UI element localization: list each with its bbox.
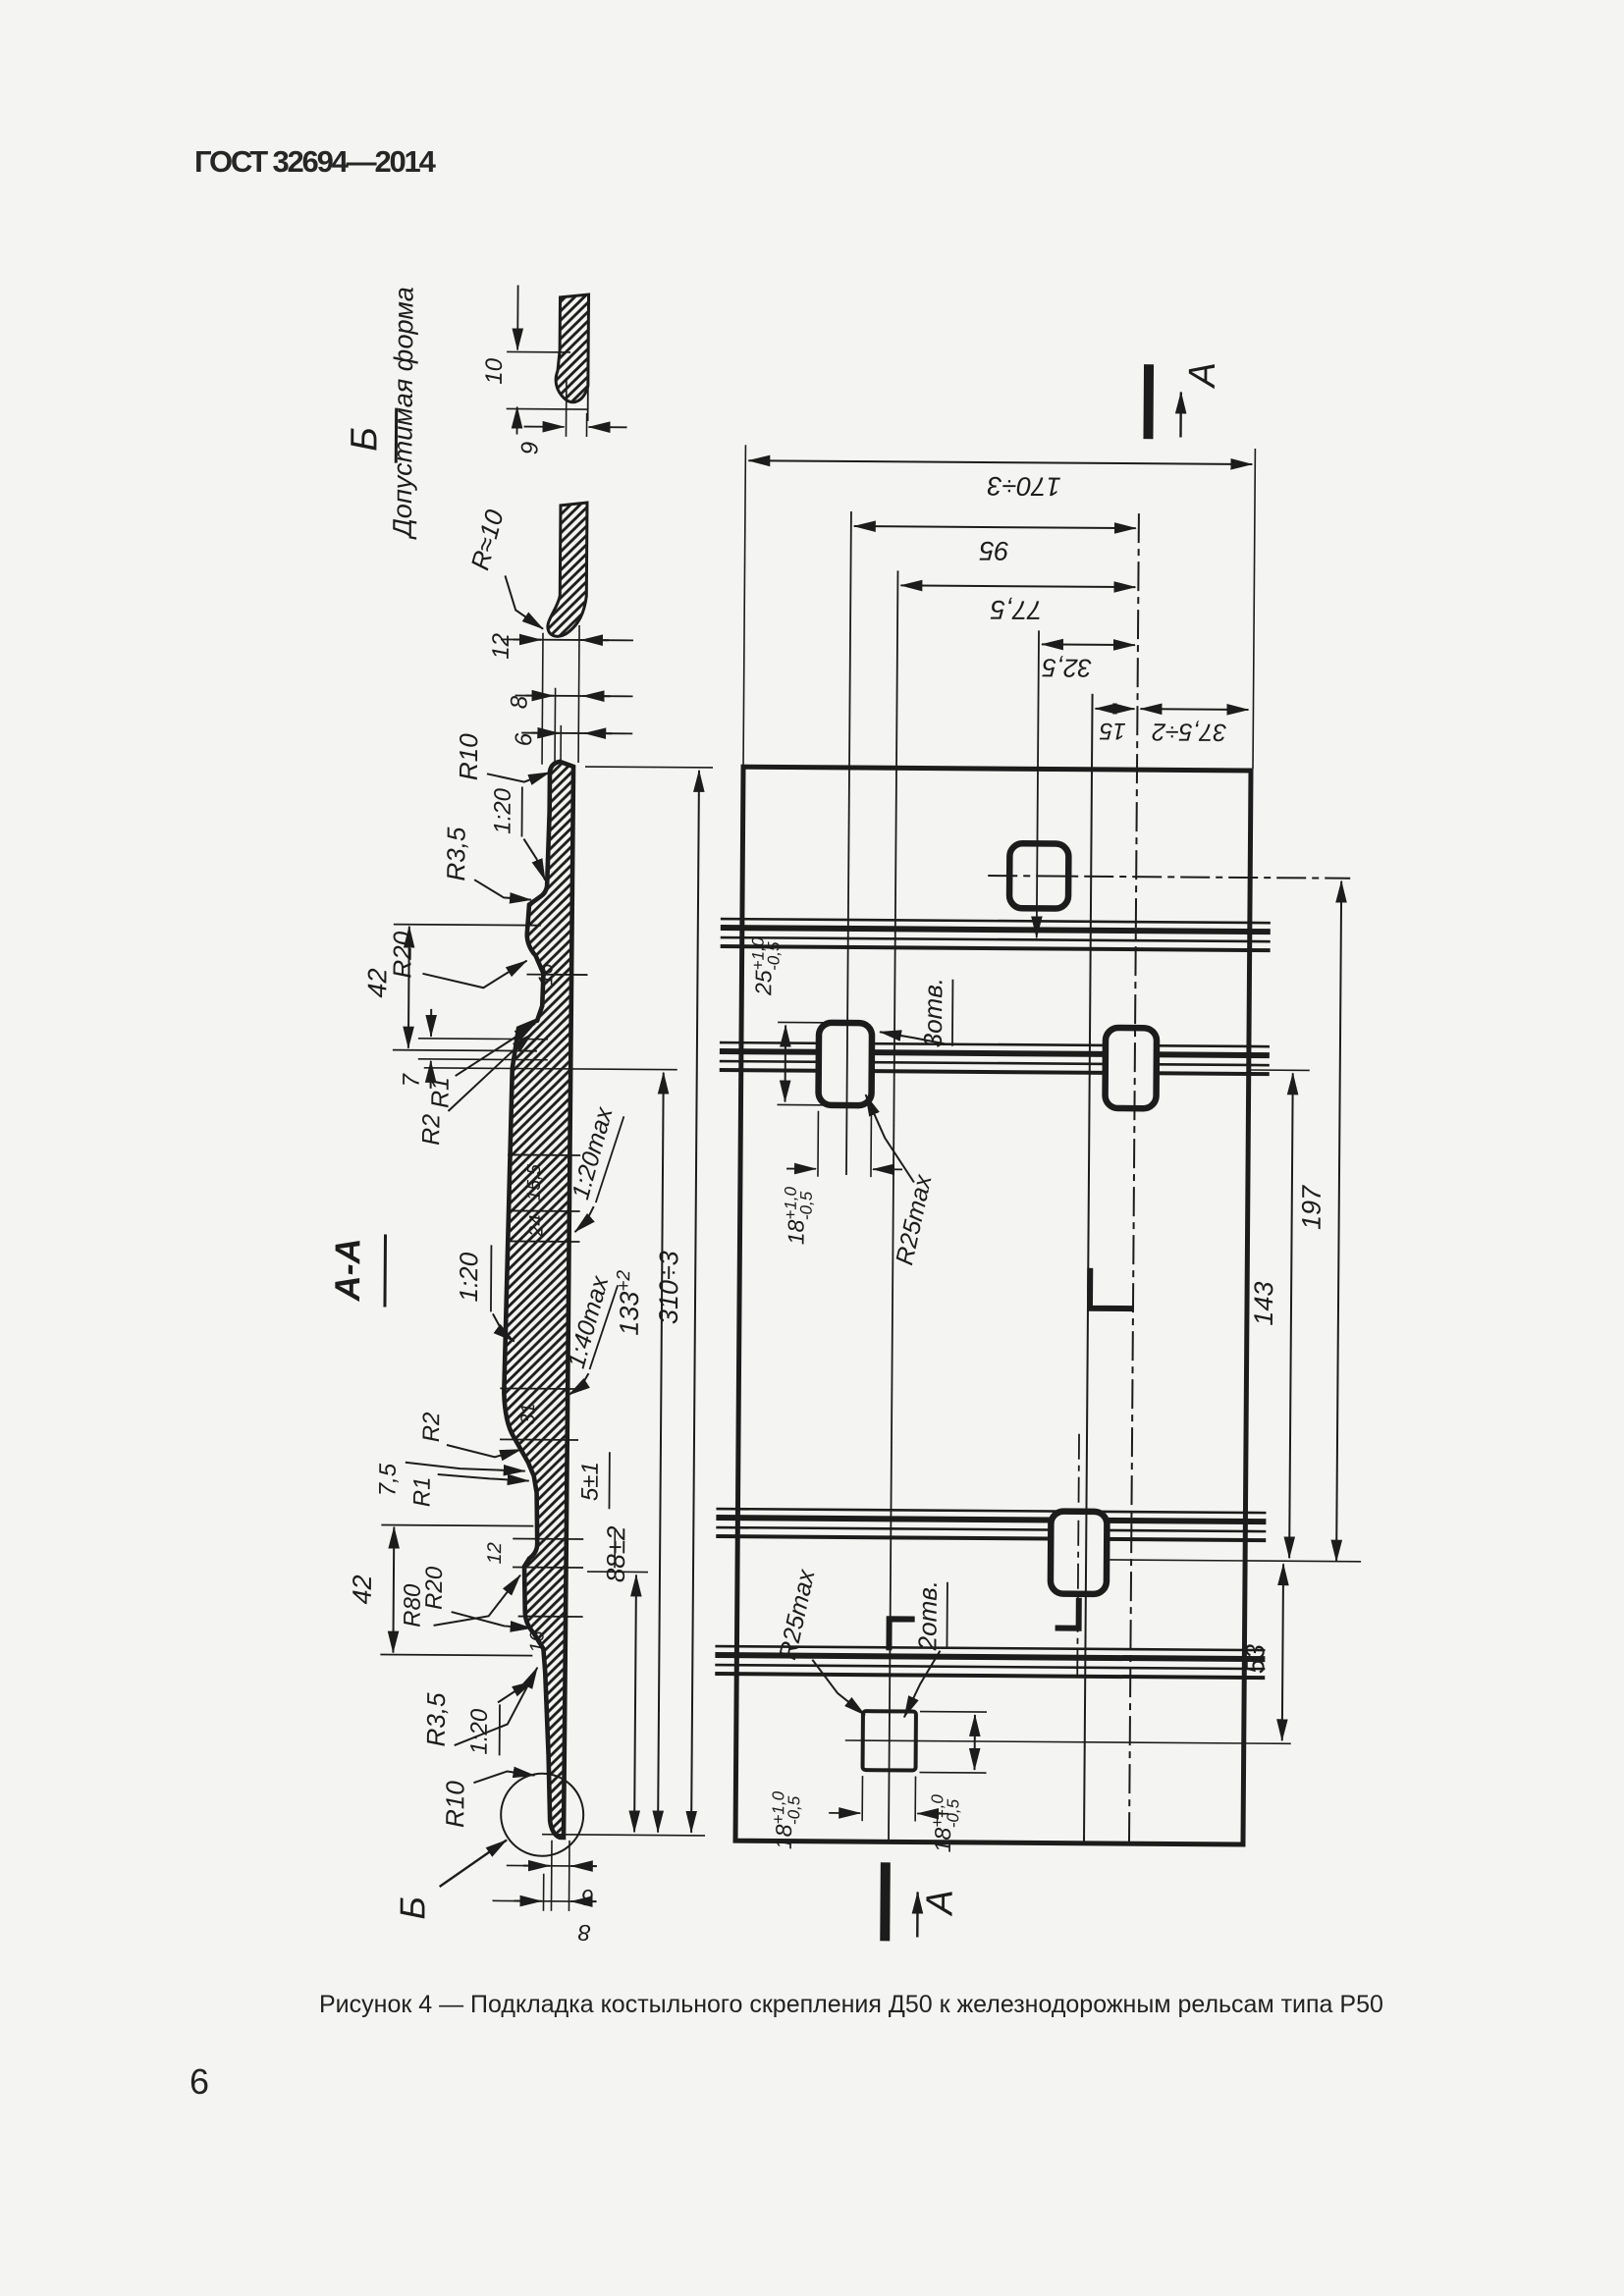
detail Б: main end-shape (hatched) [556,294,589,402]
svg-text:53: 53 [1240,1644,1270,1674]
dim 8 [554,688,557,765]
section A-A: pad profile (hatched) [501,761,573,1837]
dim 12 (end thickness) [541,633,544,765]
svg-text:8: 8 [506,695,532,709]
dim 6 bottom [550,1841,553,1911]
svg-text:15,5: 15,5 [524,1164,545,1201]
detail Б: alternative form R≈10 (hatched) [548,503,587,637]
svg-text:7,5: 7,5 [375,1463,402,1496]
detail Б: dim 9 [565,378,567,437]
svg-text:16: 16 [535,963,557,986]
svg-text:16: 16 [526,1630,548,1653]
svg-text:37,5÷2: 37,5÷2 [1152,718,1227,746]
svg-text:7: 7 [399,1072,425,1087]
svg-text:А: А [1182,362,1223,390]
svg-text:1:20max: 1:20max [567,1103,619,1202]
vertical centerline x=1154 (holes C axis, dash-dot) [1129,513,1139,1843]
hole D (lower row) [1051,1512,1108,1594]
svg-text:1:20: 1:20 [466,1708,493,1755]
svg-text:25+1,0-0,5: 25+1,0-0,5 [748,936,783,996]
svg-text:Б: Б [344,427,385,452]
svg-text:5±1: 5±1 [577,1462,604,1501]
svg-text:Допустимая форма: Допустимая форма [388,287,419,540]
dim 42 lower [381,1525,533,1526]
dim 18 (hole E height) [920,1711,987,1713]
dim 88±2 [587,1571,648,1573]
ext line 143 top [1251,1069,1310,1071]
thickness tick 12 lower [513,1538,583,1541]
svg-text:R≈10: R≈10 [464,507,510,573]
dim 18 (hole E width) [861,1776,863,1821]
svg-text:12: 12 [484,1542,506,1564]
thickness tick 16 lower [518,1616,583,1618]
svg-text:9: 9 [516,442,543,455]
svg-text:3отв.: 3отв. [918,978,948,1048]
dim 53 [1282,1564,1283,1740]
svg-text:8: 8 [578,1920,591,1946]
svg-text:31: 31 [517,1403,539,1424]
centerline hole E row (horizontal ext) [845,1740,1291,1743]
svg-text:18+1,0-0,5: 18+1,0-0,5 [781,1186,815,1245]
corner mark 1 (Г) [1090,1268,1133,1308]
plan view: pad outline [735,767,1251,1844]
svg-text:R3,5: R3,5 [441,827,470,881]
thickness tick 31 [500,1387,578,1390]
svg-text:R2: R2 [418,1412,445,1442]
svg-text:А-А: А-А [327,1238,367,1302]
svg-text:6: 6 [511,732,537,746]
thickness tick 16 upper [526,974,587,976]
dim 18+1.0-0.5 (hole B width) [817,1111,819,1177]
section mark A (top) [1143,364,1154,439]
svg-text:24: 24 [525,1214,547,1237]
rib band 3 [716,1509,1266,1513]
svg-text:R20: R20 [387,931,416,978]
svg-text:Б: Б [392,1896,432,1920]
vertical line x=909 (hole E axis) [889,570,898,1842]
rib band 2 [720,1042,1270,1046]
detail Б: dim 10 [507,350,570,352]
dim 77,5 [900,585,1135,587]
centerline hole D row (horizontal ext) [1110,1560,1361,1562]
vertical centerline hole D [1077,1434,1079,1676]
vertical line x=1108 (rail datum) [1084,694,1093,1843]
vertical line x=1053 (hole A axis) [1037,630,1039,917]
thickness ticks 15,5 / 24 [508,1153,580,1156]
svg-text:88±2: 88±2 [601,1525,630,1582]
svg-text:1:20: 1:20 [454,1252,483,1302]
svg-text:10: 10 [481,357,508,385]
svg-text:32,5: 32,5 [1042,653,1092,682]
hole C (right, middle row) [1105,1028,1157,1108]
dim 42 (upper rib zone) [394,925,541,926]
hole E (bottom small) [863,1711,916,1770]
dim 310÷3 [585,766,713,769]
dim 95 [854,526,1136,528]
svg-text:310÷3: 310÷3 [654,1251,684,1324]
page header ГОСТ 32694-2014 [194,144,434,180]
svg-text:А: А [919,1890,960,1917]
svg-text:170÷3: 170÷3 [988,471,1061,502]
svg-text:R2: R2 [417,1114,445,1146]
svg-text:R20: R20 [421,1566,448,1610]
corner mark 2 (Г) [1056,1598,1079,1629]
corner mark 3 (Г) [889,1619,914,1650]
vertical line x=861 (hole B axis) [846,511,851,1175]
svg-text:95: 95 [979,536,1009,565]
dim 37,5÷2 [1140,708,1248,711]
svg-text:2отв.: 2отв. [912,1580,943,1652]
hole A (top square hole) [1009,843,1068,908]
svg-text:42: 42 [348,1575,377,1604]
svg-text:R10: R10 [440,1781,469,1828]
svg-text:R10: R10 [454,733,483,780]
dim 25+1.0-0.5 (hole B height) [778,1021,825,1023]
svg-text:R3,5: R3,5 [421,1692,451,1747]
svg-text:133+2: 133+2 [614,1269,644,1335]
detail circle Б [501,1773,584,1856]
figure caption [319,1991,1383,2019]
svg-text:12: 12 [488,633,514,660]
svg-text:R1: R1 [426,1077,454,1108]
dim 197 [1336,881,1341,1562]
dim 143 [1289,1073,1293,1558]
page number [189,2061,209,2103]
rib band 1 [721,919,1271,923]
section mark A (bottom) [880,1862,891,1941]
centerline through hole A (horizontal) [988,876,1350,879]
svg-text:6: 6 [581,1885,594,1910]
dim 6 [560,725,562,765]
dim 133+2 [424,1068,677,1070]
svg-text:77,5: 77,5 [990,595,1043,624]
rib band 4 [715,1646,1265,1650]
svg-text:R1: R1 [408,1476,435,1507]
hole B (left, middle row) [818,1023,872,1105]
dim 15 [1095,708,1134,710]
dim 170÷3 [743,445,745,765]
dim 8 bottom [542,1874,544,1911]
svg-text:15: 15 [1099,718,1126,744]
svg-text:1:20: 1:20 [490,787,516,834]
svg-text:143: 143 [1249,1281,1278,1325]
svg-text:197: 197 [1297,1185,1326,1230]
dim 32,5 [1042,643,1135,646]
dim 7 (step) [418,1038,548,1041]
svg-text:R25max: R25max [891,1171,938,1267]
